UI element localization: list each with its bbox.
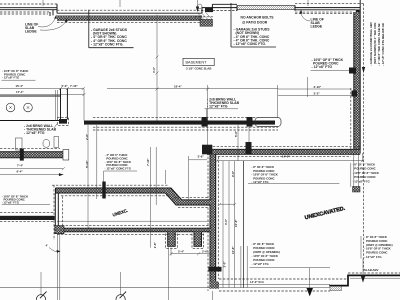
dim: 3'-10" line — [278, 88, 352, 90]
node: capsule outline at band east end — [255, 118, 281, 127]
svg-text:9'-6": 9'-6" — [231, 170, 235, 177]
wire: dashed west wall verticals — [53, 185, 55, 240]
svg-text:2'-8": 2'-8" — [153, 242, 157, 249]
note: UNEXC small rotated — [112, 208, 129, 218]
node: pier at east wall lower end — [353, 187, 361, 193]
note leader: callout TB1 vertical — [89, 10, 134, 48]
node: dimension ticks at top edge — [43, 0, 308, 7]
wire: dashed line over patio area — [197, 10, 237, 12]
wire: dim extension down to wall corner — [207, 85, 209, 147]
wall: west wall solid verticals — [55, 193, 58, 226]
wire: diagonal step dashes at jog — [197, 13, 213, 20]
dim: 3'-2" line — [278, 95, 352, 97]
dim: 10'-8" rotated upper — [234, 219, 238, 227]
wall: W3 bottom corner — [210, 282, 219, 289]
dim: 7'-10" rotated — [146, 158, 150, 166]
node: pier on band A — [20, 149, 24, 161]
svg-text:- 12"x8" CONC FTG.: - 12"x8" CONC FTG. — [234, 42, 266, 46]
svg-text:14'-6": 14'-6" — [282, 154, 290, 158]
wall: slab step thick line SE — [329, 275, 400, 285]
svg-text:3'-0": 3'-0" — [224, 218, 228, 225]
svg-text:14'-0" R.O.: 14'-0" R.O. — [250, 280, 265, 284]
svg-text:BASEMENT: BASEMENT — [186, 61, 208, 65]
svg-text:POURED CONC: POURED CONC — [366, 250, 387, 254]
wall: west basement wall W3 vertical — [210, 154, 216, 288]
dim: 14'-6" — [217, 153, 364, 162]
wall: stub pier 1 below W6 — [168, 232, 176, 247]
svg-text:2'-6": 2'-6" — [202, 249, 209, 253]
svg-text:17'-4": 17'-4" — [16, 90, 24, 94]
svg-text:3'-2": 3'-2" — [314, 92, 321, 96]
wall: garage north wall west segment (double line) — [0, 8, 57, 10]
dim: 3'-0" rotated — [223, 261, 227, 268]
wire: dashed footing west of east wall — [350, 88, 352, 150]
wall: east wall hatched band — [354, 12, 360, 154]
wall: garage north poured wall band with hatch — [57, 16, 202, 20]
node: pier on band west — [202, 117, 208, 127]
wall: garage east edge line — [156, 15, 158, 122]
svg-text:SLAB ABV: SLAB ABV — [364, 268, 379, 272]
node: cap at band A end — [63, 150, 69, 160]
svg-text:7'-10": 7'-10" — [146, 158, 150, 166]
svg-text:3 1/2" CONC SLAB: 3 1/2" CONC SLAB — [186, 66, 211, 70]
svg-text:3'-0": 3'-0" — [223, 261, 227, 268]
wire: dashed footings around W2 — [205, 147, 360, 157]
svg-text:15'-4": 15'-4" — [16, 84, 24, 88]
wall: diagonal jog and lower band W5 — [165, 188, 211, 205]
svg-text:- 12"x8" FTG: - 12"x8" FTG — [312, 65, 333, 69]
node: pier on W2 — [246, 142, 252, 154]
dim: 3'-6" — [189, 156, 208, 203]
note: UNEXCAVATED rotated big — [304, 206, 346, 222]
wall: stub wall at porch east — [61, 89, 68, 120]
dim: 7'-4" west — [0, 168, 63, 170]
dim: 3'-0" rotated upper — [224, 218, 228, 225]
svg-text:- 12"x8" FTG: - 12"x8" FTG — [252, 262, 270, 266]
svg-text:2'-8": 2'-8" — [85, 133, 89, 140]
node: small oval fixture — [43, 140, 50, 148]
wall: porch slab edges — [0, 96, 61, 121]
node: NE corner post — [356, 10, 360, 14]
svg-text:LEDGE: LEDGE — [311, 25, 323, 29]
dim: 10'-8" rotated — [231, 246, 235, 254]
svg-text:- 12"x8" FTG: - 12"x8" FTG — [24, 131, 45, 135]
svg-text:- 12"x8" FTG: - 12"x8" FTG — [207, 105, 228, 109]
node: pier on W3 — [209, 267, 222, 272]
node: corner block W7 — [55, 226, 64, 234]
svg-text:- 12"x8" FTG: - 12"x8" FTG — [2, 76, 20, 80]
note: rotated wall callout along east edge — [369, 22, 385, 66]
wall: band A west — [0, 152, 63, 158]
node: BASEMENT label box — [183, 58, 214, 65]
svg-text:@ PATIO DOOR: @ PATIO DOOR — [242, 20, 268, 24]
svg-text:- 12"x8" CONC FTG BELOW GR: - 12"x8" CONC FTG BELOW GR — [381, 23, 385, 66]
node: keynote bubble — [198, 4, 202, 8]
wire: interior verticals basement — [223, 125, 249, 288]
wire: thin verticals x=150/156 — [151, 147, 157, 248]
wall: house north wall east segment — [295, 8, 360, 10]
dim: 5'-8" rotated — [234, 130, 238, 137]
wall: west horizontal wall W4 — [56, 188, 166, 193]
wire: vertical x=168.6 bottom — [168, 247, 170, 300]
node: pad under stub — [59, 119, 67, 124]
wire: dim extension at x=278 — [277, 85, 279, 118]
svg-text:- 12"x8" FTG: - 12"x8" FTG — [353, 179, 371, 183]
wall: east wall lower thin extension — [354, 154, 359, 193]
dim: 3'-0" rotated on garage east line — [152, 66, 156, 73]
svg-text:3'-10": 3'-10" — [314, 85, 322, 89]
wall: band C west dark — [0, 216, 55, 220]
svg-text:5'-4": 5'-4" — [178, 249, 185, 253]
wall: south basement wall at opening — [216, 284, 330, 287]
svg-text:5'-0": 5'-0" — [62, 84, 69, 88]
node: pier on east wall at leader — [349, 68, 356, 74]
node: hatch block at step — [330, 286, 342, 290]
wire: long slab line bottom — [0, 287, 210, 289]
dim: row C 16'-4" — [107, 88, 278, 90]
dim: row B 17'-4" — [0, 94, 84, 96]
wall: bottom wall band W6 — [57, 228, 212, 232]
wire: dashed footing under west wall — [0, 12, 50, 14]
wire: dim extension x=84 — [83, 89, 85, 121]
wire: dashed footings W6 — [54, 226, 212, 235]
dim: 2'-8" rotated — [153, 242, 157, 249]
wall: garage south thickened slab band — [84, 121, 275, 125]
wall: mid horizontal wall W2 — [207, 149, 360, 154]
svg-text:- 12"x8" CONC FTG: - 12"x8" CONC FTG — [105, 167, 132, 171]
wire: dashed lines at step — [348, 272, 400, 274]
note leader: arrow from TB9 to wall — [309, 268, 311, 289]
dim: bottom stub dims 5'-4" 2'-6" — [171, 253, 212, 255]
node: section marker circle 2 — [120, 272, 122, 295]
wire: dashed footing around garage south band — [93, 118, 278, 130]
svg-text:10'-8": 10'-8" — [234, 219, 238, 227]
svg-text:NO ANCHOR BOLTS: NO ANCHOR BOLTS — [241, 15, 275, 19]
svg-text:7'-10": 7'-10" — [70, 84, 78, 88]
svg-text:4': 4' — [46, 244, 49, 248]
wire: short vertical x=165.5 — [165, 170, 167, 184]
dim: short tick line y=204 — [219, 203, 236, 206]
svg-text:7'-4": 7'-4" — [17, 164, 24, 168]
svg-text:3'-0": 3'-0" — [152, 66, 156, 73]
node: section marker circle 1 — [40, 272, 42, 295]
wire: dashed footings W5 — [174, 197, 208, 207]
node: pier on band east — [247, 117, 253, 127]
node: arrow on dashed line — [362, 67, 365, 73]
wall: jog/pier at north wall east end — [202, 4, 237, 13]
wall: patio door sill bar — [237, 6, 295, 10]
wire: dashed footing lines around north band — [57, 10, 207, 22]
svg-text:- 12"x8" CONC FTG.: - 12"x8" CONC FTG. — [91, 42, 123, 46]
wire: dashed footing east of east wall — [363, 4, 365, 272]
node: small rect fixture 1 — [16, 138, 23, 150]
wire: top footing dashed line west — [0, 3, 57, 5]
svg-text:LEDGE: LEDGE — [25, 30, 37, 34]
dim: 9'-6" rotated — [231, 170, 235, 177]
wire: west vertical dim lines — [88, 125, 97, 228]
node: small rect fixture 2 — [54, 137, 59, 148]
wire: dashed footings along W3 — [208, 149, 218, 291]
column: porch column west — [6, 103, 15, 112]
wall: double line below W7 — [58, 234, 60, 300]
note leader: callout TB2 vertical — [231, 3, 276, 47]
wire: dashed vertical west corner inner — [62, 196, 64, 226]
column: porch column east — [24, 103, 33, 112]
svg-text:9'-4": 9'-4" — [17, 170, 24, 174]
svg-text:5'-10": 5'-10" — [85, 160, 89, 168]
svg-text:- 12"x8" FTG: - 12"x8" FTG — [364, 255, 382, 259]
node: dark block where dims meet east wall — [352, 91, 358, 97]
wire: dashed footings W4 — [52, 185, 172, 196]
svg-text:5'-8": 5'-8" — [234, 130, 238, 137]
node: dimension tick arrow at x=197.5 — [197, 0, 199, 7]
svg-text:3'-6": 3'-6" — [198, 155, 205, 159]
wire: dashed footing north-east — [295, 4, 365, 14]
wire: vertical x=212.4 bottom — [211, 291, 213, 300]
svg-text:- 12"x8" FTG: - 12"x8" FTG — [2, 200, 20, 204]
note leader: arrow to step — [362, 259, 364, 278]
svg-text:16'-4": 16'-4" — [174, 84, 182, 88]
wall: step jog at x=57 — [50, 4, 57, 16]
node: jog junction block — [205, 8, 213, 12]
wire: slab edge line above W6 — [57, 220, 210, 222]
dim: row A 15'-4" — [0, 88, 84, 90]
node: corner block W2 west — [202, 145, 212, 155]
svg-text:10'-8": 10'-8" — [231, 246, 235, 254]
node: tick at x=88 line end — [87, 227, 90, 230]
dim: 9'-4" west — [0, 174, 63, 176]
wall: stub pier 2 below W6 — [194, 232, 202, 247]
wire: dim leader x=307.5 — [307, 77, 309, 97]
